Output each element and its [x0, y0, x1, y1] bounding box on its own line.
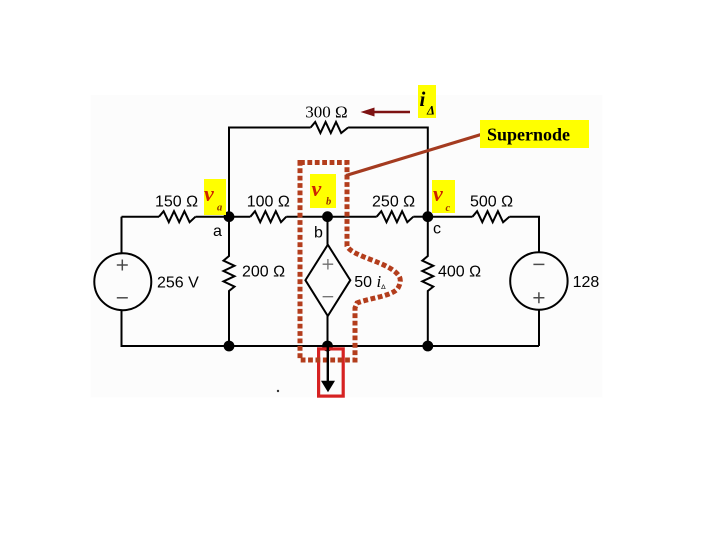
svg-text:i: i — [420, 87, 426, 111]
wire: node c to 500-ohm — [428, 216, 473, 218]
wire: node b down to dependent source — [327, 217, 329, 245]
bottom junction dot under node b — [322, 341, 333, 352]
wire: bottom bus — [229, 345, 539, 347]
resistor 400 ohm (vertical) — [422, 217, 433, 346]
resistor 250 ohm — [377, 211, 414, 222]
wire: dependent source to bottom bus — [327, 316, 329, 346]
svg-text:c: c — [433, 221, 441, 238]
svg-text:Supernode: Supernode — [487, 125, 570, 145]
reference current arrowhead — [321, 381, 335, 393]
supernode dashed outline — [300, 163, 400, 361]
yellow highlight box v_b — [310, 174, 336, 208]
node a junction dot — [224, 211, 235, 222]
resistor 200 ohm (vertical) — [224, 217, 235, 346]
svg-text:100 Ω: 100 Ω — [247, 193, 290, 210]
bottom junction dot under node a — [224, 341, 235, 352]
plus sign of dependent source — [323, 259, 334, 270]
svg-text:b: b — [314, 225, 323, 242]
svg-text:v: v — [312, 176, 322, 201]
yellow highlight box v_a — [204, 179, 226, 215]
svg-text:150 Ω: 150 Ω — [155, 193, 198, 210]
node c junction dot — [422, 211, 433, 222]
i-delta arrowhead — [361, 108, 375, 117]
svg-text:128: 128 — [573, 274, 600, 291]
wire: 150-ohm to node a — [196, 216, 230, 218]
svg-text:v: v — [433, 181, 443, 206]
svg-text:500 Ω: 500 Ω — [470, 193, 513, 210]
svg-text:Δ: Δ — [426, 104, 435, 118]
svg-text:250 Ω: 250 Ω — [372, 193, 415, 210]
svg-text:a: a — [213, 223, 222, 240]
svg-text:v: v — [204, 181, 214, 206]
voltage source 256 V — [94, 253, 151, 310]
reference current red box — [319, 349, 344, 396]
minus sign of 128 source — [533, 263, 544, 265]
stray dot — [277, 390, 279, 392]
voltage source 128 — [510, 252, 567, 309]
svg-text:400 Ω: 400 Ω — [438, 263, 481, 280]
wire: middle horizontal bus (left corner to right corner) — [122, 216, 160, 218]
wire: 100-ohm to node b — [286, 216, 327, 218]
i-delta arrow to 300 ohm — [373, 111, 410, 114]
yellow highlight box Supernode — [480, 120, 589, 148]
wire: 250-ohm to node c — [413, 216, 428, 218]
scanned image backing — [91, 95, 603, 398]
yellow highlight box i_delta — [418, 85, 436, 118]
wire: left source vertical bottom — [122, 310, 230, 346]
plus sign of 128 source — [533, 292, 544, 303]
svg-text:256 V: 256 V — [157, 274, 199, 291]
svg-text:a: a — [217, 203, 222, 214]
minus sign of dependent source — [323, 296, 334, 298]
supernode pointer line — [346, 135, 481, 176]
minus sign of 256 V source — [117, 297, 128, 299]
svg-text:c: c — [446, 203, 451, 214]
wire: node a up to top branch — [229, 128, 311, 217]
dependent source 50 i-delta (diamond) — [305, 245, 350, 316]
wire: 500-ohm to right corner and down to source — [509, 217, 539, 253]
wire: 300-ohm to node c (top right corner down) — [348, 128, 428, 217]
resistor 300 ohm — [311, 122, 349, 133]
svg-text:200 Ω: 200 Ω — [242, 263, 285, 280]
wire: node b to 250-ohm — [328, 216, 377, 218]
reference current arrow shaft — [327, 346, 329, 383]
resistor 150 ohm — [159, 211, 196, 222]
node b junction dot — [322, 211, 333, 222]
svg-text:b: b — [326, 196, 331, 207]
wire: node a to 100-ohm — [229, 216, 250, 218]
yellow highlight box v_c — [432, 180, 455, 213]
plus sign of 256 V source — [117, 260, 128, 271]
resistor 500 ohm — [473, 211, 510, 222]
resistor 100 ohm — [250, 211, 286, 222]
bottom junction dot under node c — [422, 341, 433, 352]
wire: right source vertical bottom — [538, 310, 540, 346]
wire: left source vertical top — [121, 217, 123, 254]
svg-text:300 Ω: 300 Ω — [305, 103, 347, 122]
